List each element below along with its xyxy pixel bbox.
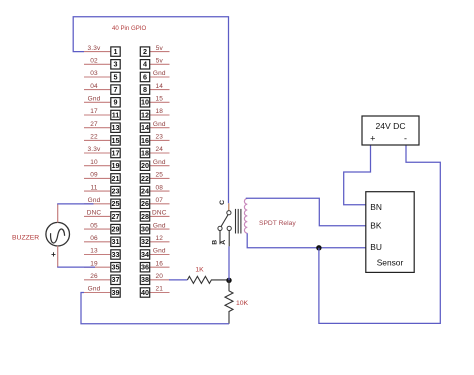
svg-text:5v: 5v <box>156 58 164 65</box>
svg-text:-: - <box>404 134 407 144</box>
svg-text:31: 31 <box>112 237 120 246</box>
svg-text:Gnd: Gnd <box>153 248 166 255</box>
svg-text:Gnd: Gnd <box>88 197 101 204</box>
wire: pin 38 GPIO20 to resistor R1 <box>169 279 187 281</box>
pin 23 (11) <box>84 184 120 195</box>
pin 11 (17) <box>84 108 120 120</box>
pin 22 (25) <box>140 172 169 183</box>
svg-text:C: C <box>219 200 226 205</box>
svg-text:14: 14 <box>156 83 164 90</box>
svg-text:19: 19 <box>112 161 120 170</box>
svg-text:26: 26 <box>90 273 98 280</box>
svg-text:16: 16 <box>141 136 149 145</box>
pin 37 (26) <box>84 273 120 285</box>
svg-text:13: 13 <box>90 248 98 255</box>
svg-text:40 Pin GPIO: 40 Pin GPIO <box>112 25 146 32</box>
svg-text:24V DC: 24V DC <box>375 121 405 131</box>
svg-text:BK: BK <box>370 221 382 231</box>
svg-text:Gnd: Gnd <box>88 286 101 293</box>
pin 21 (09) <box>84 172 120 183</box>
svg-text:17: 17 <box>112 148 120 157</box>
pin 17 (3.3v) <box>84 146 120 158</box>
pin 30 (Gnd) <box>140 222 169 233</box>
pin 5 (03) <box>84 70 120 82</box>
svg-text:24: 24 <box>156 146 164 153</box>
svg-text:40: 40 <box>141 288 149 297</box>
svg-text:1K: 1K <box>195 267 204 274</box>
svg-text:20: 20 <box>156 273 164 280</box>
svg-text:20: 20 <box>141 161 149 170</box>
svg-text:15: 15 <box>112 136 120 145</box>
svg-text:12: 12 <box>141 110 149 119</box>
pin 1 (3.3v) <box>84 45 120 57</box>
pin 13 (27) <box>84 121 120 132</box>
svg-text:06: 06 <box>90 235 98 242</box>
svg-text:21: 21 <box>156 286 164 293</box>
svg-text:15: 15 <box>156 96 164 103</box>
wire: coil bottom to sensor BU <box>247 233 366 248</box>
wire: relay contact A down to junction <box>228 246 230 280</box>
svg-text:3.3v: 3.3v <box>88 146 101 153</box>
pin 31 (06) <box>84 235 120 247</box>
svg-text:02: 02 <box>90 58 98 65</box>
svg-text:BUZZER: BUZZER <box>12 235 39 242</box>
buzzer BZ1 <box>46 222 70 246</box>
relay switch contact C <box>227 211 231 215</box>
pin 34 (Gnd) <box>140 248 169 260</box>
junction node: GPIO20 / R1 / R2 / relay contact A <box>226 278 231 283</box>
svg-text:DNC: DNC <box>87 210 102 217</box>
pin 38 (20) <box>140 273 169 285</box>
wire: pin 1 3.3V feed, up over header to relay common C <box>73 17 228 204</box>
svg-text:36: 36 <box>141 263 149 272</box>
svg-text:32: 32 <box>141 237 149 246</box>
pin 39 (Gnd) <box>84 286 120 297</box>
svg-text:18: 18 <box>156 108 164 115</box>
pin 9 (Gnd) <box>84 96 120 108</box>
svg-text:33: 33 <box>112 250 120 259</box>
wire: coil top via relay box edge to sensor BK <box>246 198 366 226</box>
svg-text:10: 10 <box>90 159 98 166</box>
svg-text:29: 29 <box>112 225 120 234</box>
svg-text:14: 14 <box>141 123 149 132</box>
pin 29 (05) <box>84 222 120 233</box>
svg-text:4: 4 <box>143 60 147 69</box>
svg-text:3: 3 <box>114 60 118 69</box>
pin 35 (19) <box>84 260 120 272</box>
svg-text:12: 12 <box>156 235 164 242</box>
svg-text:9: 9 <box>114 98 118 107</box>
svg-text:03: 03 <box>90 70 98 77</box>
svg-text:26: 26 <box>141 199 149 208</box>
junction node: coil return / sensor BU / 24V- <box>316 245 321 250</box>
svg-text:+: + <box>370 134 375 144</box>
svg-text:25: 25 <box>156 172 164 179</box>
lead below contact B (n.c.) <box>219 231 221 245</box>
svg-text:05: 05 <box>90 222 98 229</box>
svg-text:18: 18 <box>141 148 149 157</box>
svg-text:10K: 10K <box>236 300 249 307</box>
pin 28 (DNC) <box>140 210 169 221</box>
pin 15 (22) <box>84 134 120 145</box>
svg-text:27: 27 <box>112 212 120 221</box>
pin 25 (Gnd) <box>84 197 120 209</box>
svg-text:3.3v: 3.3v <box>88 45 101 52</box>
svg-text:Sensor: Sensor <box>377 258 404 268</box>
pin 7 (04) <box>84 83 120 95</box>
svg-text:BN: BN <box>370 202 382 212</box>
svg-text:Gnd: Gnd <box>153 159 166 166</box>
pin 27 (DNC) <box>84 210 120 221</box>
svg-text:11: 11 <box>90 184 97 191</box>
svg-text:30: 30 <box>141 225 149 234</box>
relay switch contact B <box>218 226 222 230</box>
svg-text:08: 08 <box>156 184 164 191</box>
svg-text:23: 23 <box>112 187 120 196</box>
svg-text:DNC: DNC <box>152 210 167 217</box>
svg-text:SPDT Relay: SPDT Relay <box>259 220 296 227</box>
svg-text:5: 5 <box>114 72 118 81</box>
svg-text:Gnd: Gnd <box>153 121 166 128</box>
svg-text:Gnd: Gnd <box>153 222 166 229</box>
pin 18 (24) <box>140 146 169 158</box>
svg-text:2: 2 <box>143 47 147 56</box>
relay switch blade <box>221 215 228 227</box>
power supply 24V DC <box>362 116 419 145</box>
pin 12 (18) <box>140 108 169 120</box>
svg-text:7: 7 <box>114 85 118 94</box>
svg-text:35: 35 <box>112 263 120 272</box>
svg-text:6: 6 <box>143 72 147 81</box>
pin 19 (10) <box>84 159 120 171</box>
svg-text:8: 8 <box>143 85 147 94</box>
svg-text:21: 21 <box>112 174 120 183</box>
svg-text:10: 10 <box>141 98 149 107</box>
svg-text:BU: BU <box>370 242 382 252</box>
svg-text:25: 25 <box>112 199 120 208</box>
pin 26 (07) <box>140 197 169 209</box>
resistor R1 1K <box>187 276 228 283</box>
svg-text:23: 23 <box>156 134 164 141</box>
pin 2 (5v) <box>140 45 169 57</box>
pin 6 (Gnd) <box>140 70 169 82</box>
pin 3 (02) <box>84 58 120 70</box>
relay coil core bars <box>236 209 241 234</box>
svg-text:B: B <box>211 240 218 245</box>
pin 33 (13) <box>84 248 120 260</box>
wire: ground return pin 39 Gnd to R2 bottom <box>81 293 229 324</box>
pin 14 (Gnd) <box>140 121 169 132</box>
svg-text:16: 16 <box>156 260 164 267</box>
svg-text:24: 24 <box>141 187 149 196</box>
resistor R2 10K <box>225 280 233 324</box>
svg-text:37: 37 <box>112 275 120 284</box>
relay coil K1 <box>244 199 247 234</box>
pin 8 (14) <box>140 83 169 95</box>
svg-text:13: 13 <box>112 123 120 132</box>
sensor S1 <box>366 192 414 273</box>
svg-text:+: + <box>51 250 56 259</box>
relay switch contact A <box>227 226 231 230</box>
svg-text:34: 34 <box>141 250 149 259</box>
svg-text:07: 07 <box>156 197 164 204</box>
svg-text:09: 09 <box>90 172 98 179</box>
pin 4 (5v) <box>140 58 169 70</box>
svg-text:5v: 5v <box>156 45 164 52</box>
pin 36 (16) <box>140 260 169 272</box>
wire: 24V + to sensor BN <box>344 145 371 205</box>
svg-text:17: 17 <box>90 108 98 115</box>
pin 10 (15) <box>140 96 169 108</box>
wire: buzzer bottom to pin 35 GPIO19 <box>57 246 59 267</box>
svg-text:Gnd: Gnd <box>153 70 166 77</box>
pin 24 (08) <box>140 184 169 195</box>
svg-text:11: 11 <box>112 110 120 119</box>
svg-text:A: A <box>220 240 227 245</box>
svg-text:28: 28 <box>141 212 149 221</box>
svg-text:22: 22 <box>90 134 98 141</box>
pin 40 (21) <box>140 286 169 297</box>
svg-text:04: 04 <box>90 83 98 90</box>
pin 20 (Gnd) <box>140 159 169 171</box>
svg-text:39: 39 <box>112 288 120 297</box>
pin 16 (23) <box>140 134 169 145</box>
svg-text:22: 22 <box>141 174 149 183</box>
svg-text:38: 38 <box>141 275 149 284</box>
svg-text:Gnd: Gnd <box>88 96 101 103</box>
svg-text:27: 27 <box>90 121 98 128</box>
relay switch common C lead <box>228 203 230 210</box>
lead below contact A <box>228 231 230 247</box>
svg-text:19: 19 <box>90 260 98 267</box>
pin 32 (12) <box>140 235 169 247</box>
wire: buzzer top to pin 25 Gnd <box>57 204 59 223</box>
svg-text:1: 1 <box>114 47 118 56</box>
wire: junction to 24V - return <box>319 145 440 324</box>
